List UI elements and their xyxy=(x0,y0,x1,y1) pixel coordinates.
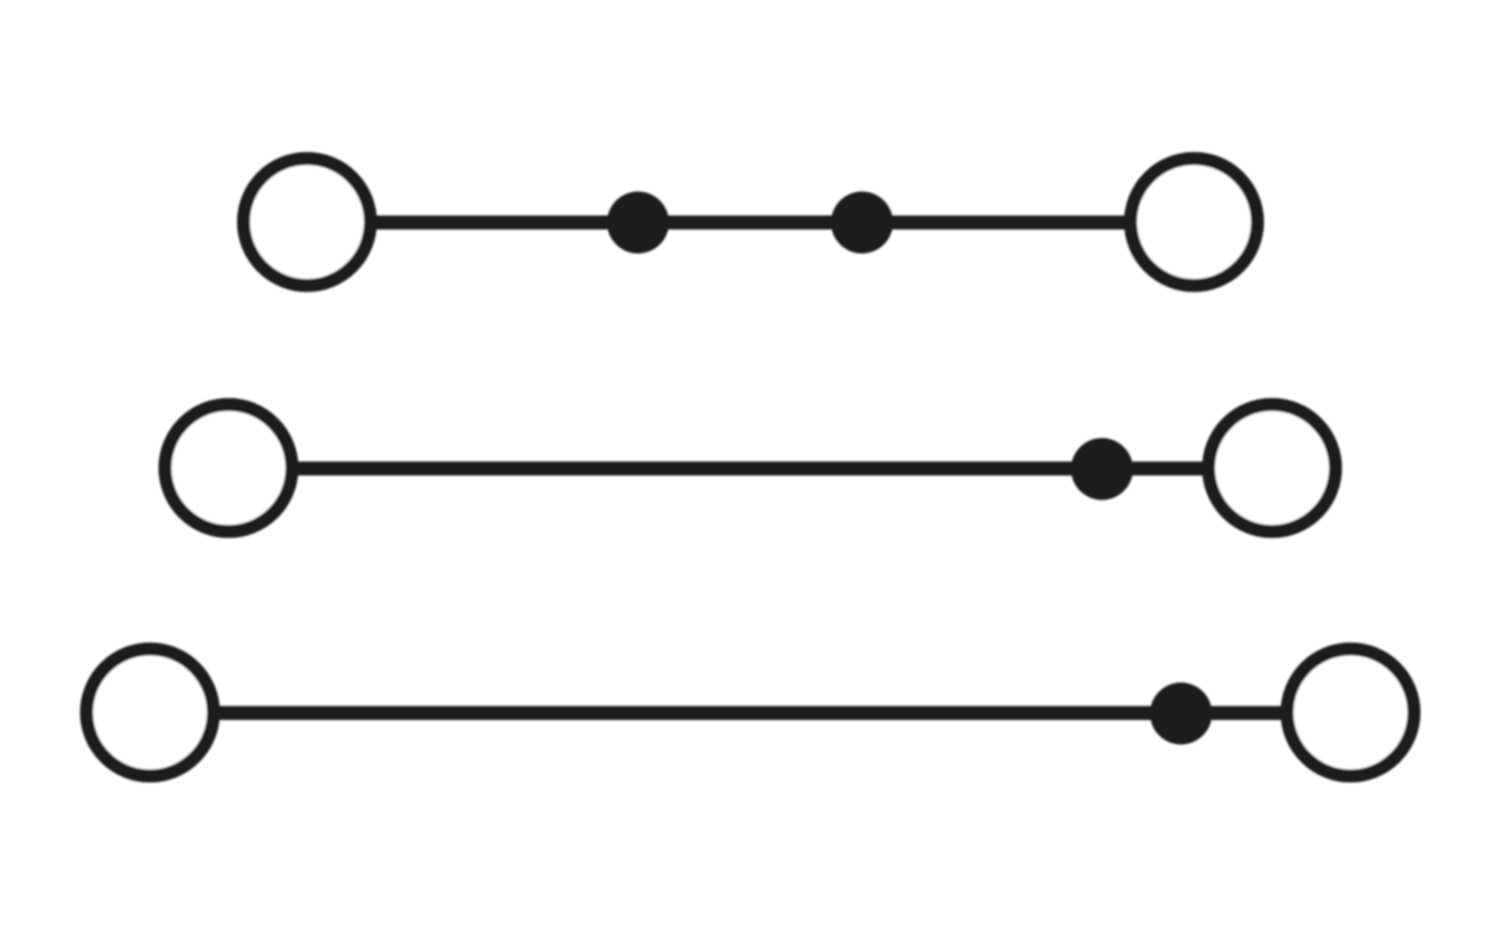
wire level 3 conductor xyxy=(150,706,1351,720)
node level 3 bridge junction xyxy=(1150,683,1212,745)
terminal level 2 left clamp xyxy=(165,405,292,532)
wire level 2 conductor xyxy=(229,462,1273,476)
terminal level 1 right clamp xyxy=(1131,159,1258,286)
terminal level 3 left clamp xyxy=(87,649,214,776)
terminal level 1 left clamp xyxy=(244,159,371,286)
terminal level 3 right clamp xyxy=(1287,649,1414,776)
node level 1 bridge junction A xyxy=(607,192,669,254)
terminal level 2 right clamp xyxy=(1209,405,1336,532)
node level 1 bridge junction B xyxy=(831,192,893,254)
wire level 1 conductor xyxy=(307,216,1194,230)
node level 2 bridge junction xyxy=(1071,438,1133,500)
